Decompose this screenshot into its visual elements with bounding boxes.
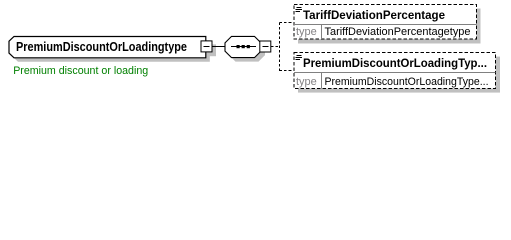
svg-text:TariffDeviationPercentagetype: TariffDeviationPercentagetype <box>325 26 471 38</box>
svg-text:PremiumDiscountOrLoadingtype: PremiumDiscountOrLoadingtype <box>16 39 187 54</box>
svg-text:type: type <box>296 26 317 38</box>
svg-text:TariffDeviationPercentage: TariffDeviationPercentage <box>303 10 445 22</box>
svg-text:PremiumDiscountOrLoadingType..: PremiumDiscountOrLoadingType... <box>325 76 489 88</box>
svg-text:Premium discount or loading: Premium discount or loading <box>13 65 148 77</box>
svg-text:type: type <box>296 76 317 88</box>
svg-text:PremiumDiscountOrLoadingTyp...: PremiumDiscountOrLoadingTyp... <box>303 58 487 70</box>
